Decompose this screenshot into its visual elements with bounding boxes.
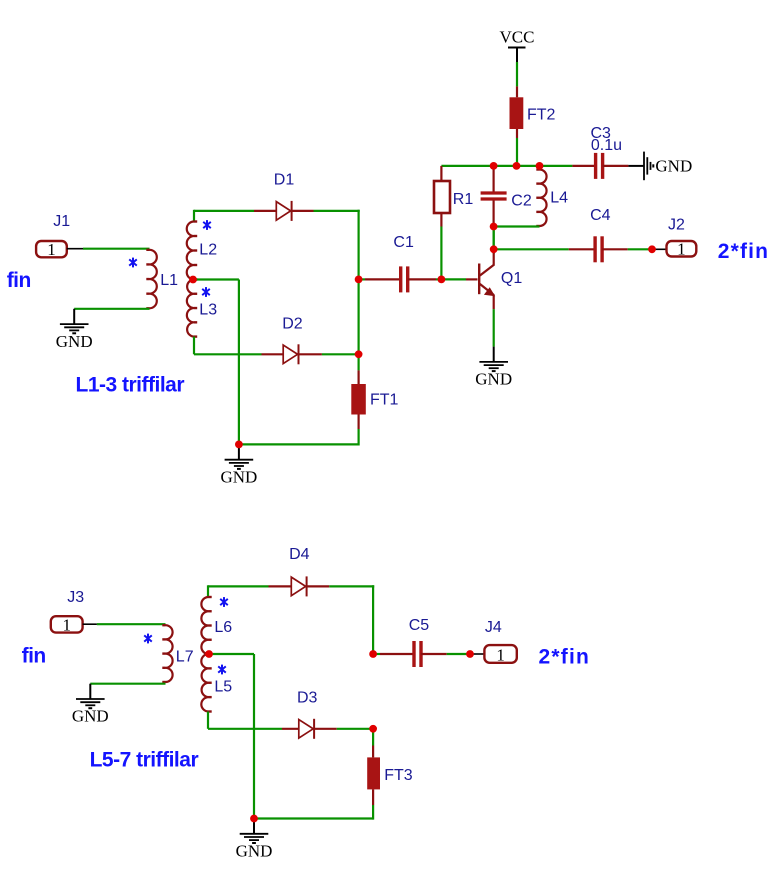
svg-text:L5: L5 — [214, 679, 232, 696]
svg-text:FT1: FT1 — [370, 392, 399, 409]
svg-text:GND: GND — [236, 842, 273, 861]
svg-text:C2: C2 — [511, 193, 532, 210]
svg-text:L1-3 triffilar: L1-3 triffilar — [76, 374, 185, 397]
svg-text:GND: GND — [56, 332, 93, 351]
svg-text:C1: C1 — [393, 234, 414, 251]
svg-text:L4: L4 — [550, 190, 568, 207]
svg-text:R1: R1 — [453, 191, 474, 208]
svg-text:D2: D2 — [282, 316, 303, 333]
svg-text:GND: GND — [220, 467, 257, 486]
svg-text:L6: L6 — [214, 619, 232, 636]
svg-text:GND: GND — [655, 156, 692, 175]
svg-text:D3: D3 — [297, 689, 318, 706]
svg-text:J2: J2 — [668, 217, 685, 234]
svg-text:C4: C4 — [590, 207, 611, 224]
svg-text:Q1: Q1 — [501, 270, 522, 287]
svg-text:D1: D1 — [274, 171, 295, 188]
svg-text:1: 1 — [677, 239, 686, 258]
svg-text:GND: GND — [72, 707, 109, 726]
svg-text:1: 1 — [47, 240, 56, 259]
svg-text:L2: L2 — [199, 241, 217, 258]
svg-text:L3: L3 — [199, 302, 217, 319]
svg-text:2*fin: 2*fin — [718, 240, 770, 263]
svg-text:J1: J1 — [53, 213, 70, 230]
svg-text:D4: D4 — [289, 546, 310, 563]
svg-text:2*fin: 2*fin — [539, 646, 591, 669]
svg-text:0.1u: 0.1u — [591, 137, 622, 154]
svg-text:fin: fin — [7, 269, 31, 292]
svg-text:L1: L1 — [160, 272, 178, 289]
svg-text:1: 1 — [62, 615, 71, 634]
svg-text:FT3: FT3 — [384, 767, 413, 784]
svg-text:C5: C5 — [409, 617, 430, 634]
svg-text:J4: J4 — [485, 619, 502, 636]
svg-text:L5-7 triffilar: L5-7 triffilar — [90, 748, 199, 771]
svg-text:L7: L7 — [176, 649, 194, 666]
svg-text:J3: J3 — [67, 589, 84, 606]
svg-text:1: 1 — [496, 646, 505, 665]
svg-text:VCC: VCC — [500, 28, 535, 47]
svg-text:fin: fin — [22, 645, 46, 668]
svg-text:FT2: FT2 — [527, 107, 556, 124]
svg-text:GND: GND — [475, 370, 512, 389]
